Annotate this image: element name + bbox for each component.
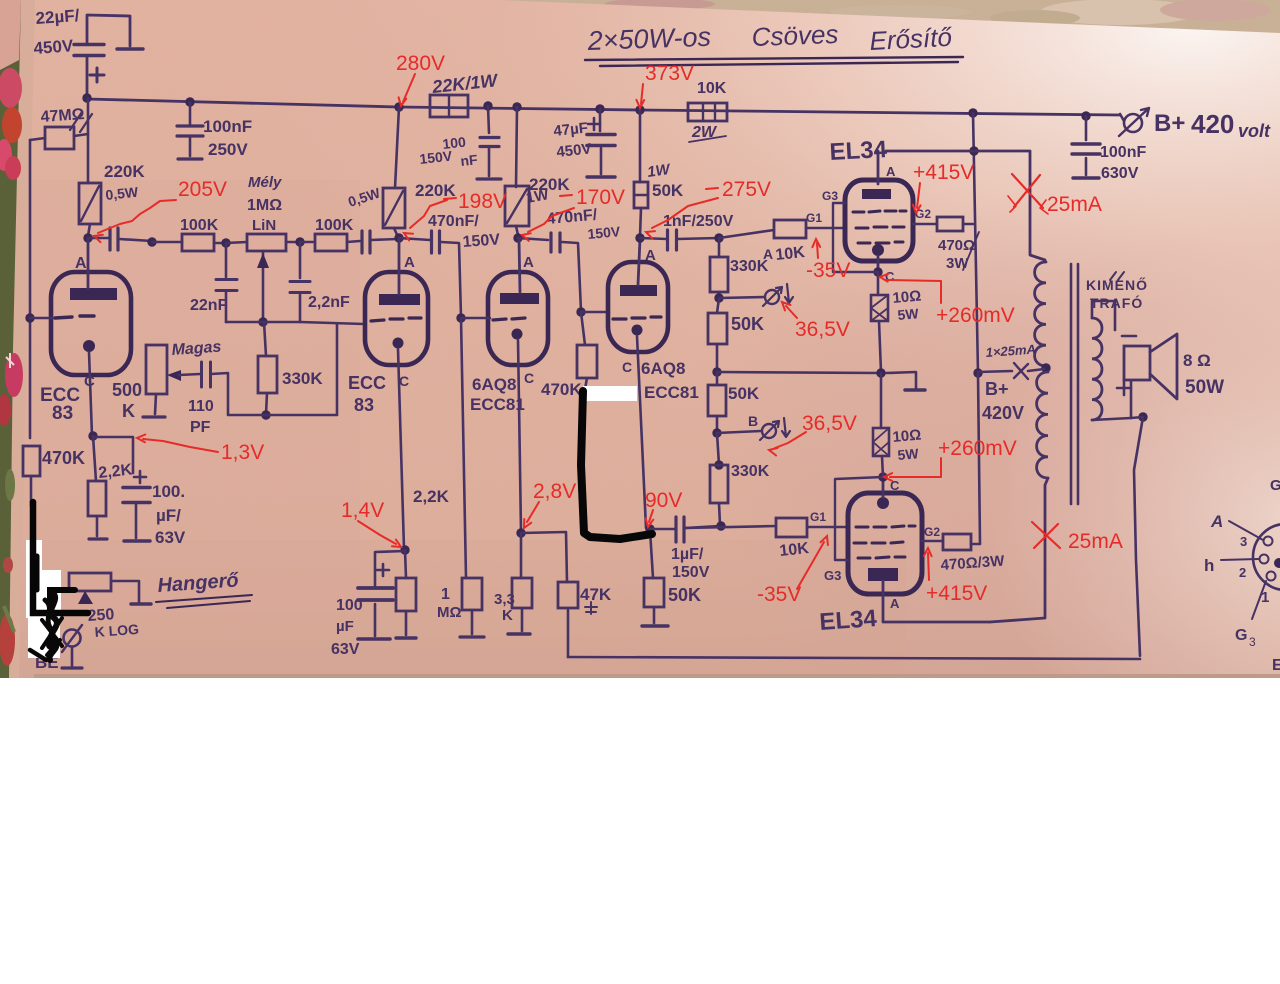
resistor 10ohm 5W EL34 2 <box>873 428 889 456</box>
inductor OPT secondary <box>1092 318 1102 420</box>
svg-text:+415V: +415V <box>926 582 987 605</box>
svg-text:B+: B+ <box>985 379 1009 399</box>
svg-text:A: A <box>645 247 656 264</box>
node 90V <box>645 524 654 533</box>
svg-text:A: A <box>890 596 900 611</box>
svg-text:1,3V: 1,3V <box>221 441 264 464</box>
resistor 10K grid EL34 1 <box>774 220 806 238</box>
svg-text:83: 83 <box>52 403 73 424</box>
subtle grain <box>0 0 1 1</box>
wire 2.2nF top <box>299 242 302 278</box>
arrow -35V lower <box>797 542 824 589</box>
wire pin h <box>1221 559 1258 560</box>
wire pin G3 <box>1252 581 1266 619</box>
capacitor 110pF <box>200 362 203 387</box>
ground 100nF 630V <box>1073 176 1099 179</box>
node <box>483 101 492 110</box>
wire to G1 EL34 2 <box>807 526 849 529</box>
potentiometer A trim <box>765 290 779 304</box>
wire cathode tube1 <box>89 352 92 436</box>
red X lower <box>1032 522 1060 548</box>
wire <box>347 241 360 242</box>
speaker 8ohm 50W <box>1122 335 1136 338</box>
svg-text:KIMENŐ: KIMENŐ <box>1086 276 1148 293</box>
resistor 47K <box>558 582 578 608</box>
svg-text:100nF: 100nF <box>203 117 252 136</box>
polarity + 47uF <box>588 118 600 130</box>
node tone network <box>258 317 267 326</box>
cathode tube4 <box>632 325 643 336</box>
resistor 50K upper <box>708 313 727 344</box>
wire <box>300 241 315 244</box>
wire <box>264 322 266 356</box>
capacitor coupling tube1 <box>108 228 111 250</box>
resistor 220K 0.5W anode tube1 <box>87 98 90 183</box>
capacitor 100nF/250V <box>185 97 194 106</box>
node cathode EL34 1 <box>873 267 882 276</box>
svg-text:Mély: Mély <box>248 174 282 191</box>
svg-text:330K: 330K <box>731 463 770 480</box>
wire anode tube3 <box>519 240 520 292</box>
wire screen supply <box>973 113 978 373</box>
polarity + 22uF <box>90 68 104 82</box>
wire <box>716 372 719 385</box>
resistor 470K tube4 <box>577 345 597 378</box>
arrow +260mV lower <box>890 458 941 477</box>
ground 100uF 2 <box>358 637 390 641</box>
svg-text:Csöves: Csöves <box>751 19 839 52</box>
grid dashes tube2 <box>371 318 421 321</box>
wire anode EL34 2 <box>883 594 990 622</box>
transformer core lines <box>1070 264 1073 504</box>
svg-text:2: 2 <box>1239 565 1246 580</box>
paper <box>16 0 1280 678</box>
svg-text:150V: 150V <box>587 223 622 242</box>
white correction patch bottom left <box>26 540 42 576</box>
node ladder top <box>714 233 723 242</box>
wire to ground <box>886 372 916 388</box>
resistor 3.3K <box>512 578 532 608</box>
wire input grid rail <box>29 140 32 438</box>
wire <box>719 503 720 525</box>
wire 2.8V to 47K <box>521 532 567 582</box>
resistor 22K/1W on rail <box>430 95 468 117</box>
svg-text:TRAFÓ: TRAFÓ <box>1090 294 1143 311</box>
wire 1M grid leak <box>461 318 466 578</box>
slightly darker left-mid paper tint <box>30 180 360 640</box>
wire 47K to feedback rail <box>567 608 570 657</box>
capacitor 100uF/63V 2 <box>358 586 393 590</box>
svg-text:50W: 50W <box>1185 377 1224 398</box>
svg-text:C: C <box>524 370 534 386</box>
resistor 50K lower <box>708 385 726 416</box>
svg-text:47MΩ: 47MΩ <box>40 106 85 126</box>
node grid tube4 <box>576 307 585 316</box>
wire cathode tube2 <box>398 349 404 549</box>
wire grid tube3 <box>461 317 490 320</box>
svg-text:1µF/: 1µF/ <box>671 546 704 563</box>
arrow 373V <box>641 84 643 104</box>
wire anode tube1 <box>87 238 90 288</box>
svg-text:25mA: 25mA <box>1068 530 1123 553</box>
svg-text:nF: nF <box>460 151 479 169</box>
wire cathode tube3 <box>518 340 521 532</box>
node 198V plate tube2 <box>394 233 403 242</box>
svg-text:100K: 100K <box>315 217 354 234</box>
capacitor 100uF/63V <box>123 486 150 490</box>
svg-text:LiN: LiN <box>252 217 276 234</box>
wire <box>717 433 719 465</box>
paper bottom edge shadow <box>34 674 1280 678</box>
pentode EL34 #2 <box>848 493 922 594</box>
white correction patch middle <box>583 386 637 401</box>
wire anode tube2 <box>398 238 401 294</box>
resistor 220K anode tube3 <box>505 186 529 226</box>
svg-text:K: K <box>502 607 513 624</box>
svg-text:10Ω: 10Ω <box>892 427 922 446</box>
ground 2.2K 2 <box>396 636 416 639</box>
node rail left end <box>82 93 91 102</box>
node 373V <box>635 105 644 114</box>
svg-text:205V: 205V <box>178 178 227 201</box>
capacitor 22nF <box>216 278 237 281</box>
svg-text:3: 3 <box>1240 534 1247 549</box>
svg-text:A: A <box>1210 512 1223 531</box>
wiper arrow 500K <box>167 370 181 381</box>
svg-text:2,2K: 2,2K <box>413 487 450 506</box>
svg-text:36,5V: 36,5V <box>795 318 850 341</box>
floral fabric strip on left edge <box>0 0 35 678</box>
wire CT to B+ <box>978 371 1012 372</box>
wire rail to 220K tube2 <box>395 107 399 188</box>
svg-text:198V: 198V <box>458 190 507 213</box>
resistor 47M <box>45 127 74 149</box>
wire <box>152 241 182 244</box>
wire <box>716 344 719 371</box>
wire <box>677 238 719 239</box>
potentiometer B trim <box>762 424 776 438</box>
wire <box>226 242 247 243</box>
arrow 36,5V upper <box>786 306 797 318</box>
node 170V plate tube3 <box>513 233 522 242</box>
svg-text:373V: 373V <box>645 62 694 85</box>
arrow 2,8V <box>527 502 539 522</box>
black marker input wiring <box>33 502 88 613</box>
wiper arrow 1M pot <box>262 251 265 322</box>
wire <box>640 238 667 239</box>
svg-text:µF: µF <box>336 618 354 635</box>
wire G3 tie EL34 2 <box>835 477 883 560</box>
grid dashes EL34 1 <box>853 211 906 212</box>
svg-text:220K: 220K <box>104 162 145 181</box>
svg-text:90V: 90V <box>645 489 682 512</box>
svg-text:K LOG: K LOG <box>94 621 139 640</box>
ground 100nF mid <box>477 177 501 180</box>
wire <box>488 106 489 133</box>
black marker wire middle <box>581 391 652 539</box>
node cathode tube1 1.3V <box>88 431 97 440</box>
svg-text:2×50W-os: 2×50W-os <box>586 22 711 56</box>
arrow 198V <box>410 200 447 228</box>
wire 90V to 50K <box>650 530 653 578</box>
svg-text:250V: 250V <box>208 140 248 159</box>
svg-text:6AQ8: 6AQ8 <box>641 359 685 378</box>
wire to 10K EL34 1 <box>719 230 774 238</box>
svg-text:150V: 150V <box>462 231 501 251</box>
ground 500K <box>143 415 165 418</box>
svg-text:ECC81: ECC81 <box>644 383 699 402</box>
svg-text:100.: 100. <box>152 482 185 501</box>
arrow +415V lower <box>928 553 929 580</box>
svg-text:470K: 470K <box>541 380 582 399</box>
svg-text:330K: 330K <box>282 369 323 388</box>
svg-text:170V: 170V <box>576 186 625 209</box>
arrow +260mV upper <box>886 280 941 303</box>
node pot B <box>712 428 721 437</box>
resistor 50K 90V <box>644 578 664 607</box>
cathode EL34 1 <box>872 244 884 256</box>
arrow +415V upper <box>917 183 920 208</box>
cathode tube2 <box>393 338 404 349</box>
resistor 100K right <box>315 234 347 251</box>
svg-text:MΩ: MΩ <box>437 604 462 621</box>
node bias bus <box>712 367 721 376</box>
wire <box>685 526 719 528</box>
arrow 1,3V <box>143 439 218 452</box>
wire <box>119 239 152 241</box>
wire OPT bottom to anode EL34 2 <box>990 478 1048 622</box>
dash 170V <box>560 195 572 196</box>
wire rail to 220K tube3 <box>516 107 517 187</box>
svg-text:ECC81: ECC81 <box>470 395 525 414</box>
wire <box>518 238 548 240</box>
wire cap to rail <box>86 56 89 98</box>
polarity + speaker <box>1117 381 1131 395</box>
svg-text:C: C <box>399 373 409 389</box>
wire anode EL34 1 <box>877 151 880 184</box>
wire <box>88 237 109 240</box>
svg-text:EL34: EL34 <box>829 136 888 166</box>
svg-text:+260mV: +260mV <box>936 304 1015 327</box>
svg-text:50K: 50K <box>731 314 764 334</box>
node <box>147 237 156 246</box>
wire to speaker + <box>1130 381 1133 418</box>
wire rail to 50K <box>639 110 642 182</box>
cathode tube1 <box>83 340 95 352</box>
dash 198V <box>444 198 456 199</box>
svg-text:G1: G1 <box>806 211 822 225</box>
wire anode EL34 1 to OPT top <box>886 151 1045 260</box>
wire to grid tube3 <box>441 242 461 317</box>
svg-text:420V: 420V <box>982 403 1024 423</box>
wire <box>717 298 719 313</box>
node grid tube1 <box>25 313 34 322</box>
svg-text:6AQ8: 6AQ8 <box>472 375 516 394</box>
svg-text:volt: volt <box>1238 121 1271 141</box>
svg-text:+415V: +415V <box>913 161 974 184</box>
grid dashes EL34 2 <box>856 526 915 527</box>
node 1.4V cathode tube2 <box>400 545 409 554</box>
svg-text:A: A <box>404 254 415 271</box>
wire secondary top to speaker <box>1092 301 1115 330</box>
triode ECC83 #1 <box>51 272 131 375</box>
node cathode ground bus <box>876 368 885 377</box>
ground 50K <box>642 624 668 627</box>
svg-text:B: B <box>748 413 758 429</box>
node A 205V plate tube1 <box>83 233 92 242</box>
node lower bus <box>261 410 270 419</box>
grid dashes tube4 <box>613 317 661 319</box>
svg-text:2,2nF: 2,2nF <box>308 294 350 311</box>
triode ECC83 #2 <box>365 272 428 365</box>
wire tone bus to grid tube2 <box>226 322 364 324</box>
triode 6AQ8 #1 <box>488 272 548 365</box>
wire anode tube4 <box>638 239 640 285</box>
node anode line crossing <box>969 146 978 155</box>
node <box>595 104 604 113</box>
svg-text:630V: 630V <box>1101 165 1139 182</box>
wire feedback vertical <box>1134 417 1143 656</box>
wire to G1 EL34 1 <box>806 227 846 230</box>
potentiometer 250K log volume <box>69 573 111 591</box>
svg-text:A: A <box>75 255 87 272</box>
resistor 10K/2W on rail <box>688 103 727 121</box>
resistor 470K input <box>23 446 40 476</box>
wire <box>585 378 587 389</box>
wire <box>394 228 398 237</box>
svg-text:µF/: µF/ <box>156 506 181 525</box>
node 2.8V cathode tube3 <box>516 528 525 537</box>
wire 110pF to bus <box>211 373 228 414</box>
wire <box>718 292 721 298</box>
wire grid tube4 <box>581 311 609 314</box>
potentiometer 1M bass <box>247 234 286 251</box>
arrow -35V upper <box>817 243 818 258</box>
svg-text:1,4V: 1,4V <box>341 499 384 522</box>
wire <box>718 238 721 257</box>
svg-text:470K: 470K <box>42 448 85 468</box>
capacitor 22uF/450V <box>87 15 130 46</box>
svg-text:50K: 50K <box>728 384 760 403</box>
svg-text:G: G <box>1270 477 1280 494</box>
arrow 1,4V <box>358 521 396 544</box>
ground 47uF <box>587 175 615 178</box>
ground 22uF return bar <box>117 47 143 50</box>
svg-text:63V: 63V <box>331 641 360 658</box>
wire wiper to 110pF <box>179 374 200 375</box>
ground EL34 cathodes <box>905 388 925 391</box>
inductor OPT primary lower <box>1037 372 1048 478</box>
wallpaper strip above paper, top right <box>480 0 1280 36</box>
capacitor 470nF/150V a <box>430 231 433 253</box>
wire 470K to input <box>30 476 33 506</box>
svg-text:220K: 220K <box>415 181 456 200</box>
svg-text:h: h <box>1204 556 1214 575</box>
svg-text:G: G <box>1235 627 1247 644</box>
svg-text:100K: 100K <box>180 217 219 234</box>
svg-text:C: C <box>622 359 632 375</box>
svg-text:470Ω: 470Ω <box>938 237 975 254</box>
svg-text:63V: 63V <box>155 528 186 547</box>
wire <box>650 528 675 531</box>
arrow 170V <box>528 208 574 232</box>
svg-text:E: E <box>1272 657 1280 674</box>
resistor 2.2K cathode tube1 <box>88 481 106 516</box>
wire G3 tie EL34 1 <box>833 203 878 272</box>
wire to 100uF <box>93 437 133 473</box>
svg-text:10K: 10K <box>697 80 727 97</box>
resistor 10ohm 5W EL34 1 <box>871 295 888 321</box>
node grid bus EL34 2 <box>716 521 725 530</box>
svg-text:+260mV: +260mV <box>938 437 1017 460</box>
capacitor coupling to tube2 <box>360 231 363 253</box>
node 22nF <box>221 238 230 247</box>
resistor 100K left <box>182 234 214 251</box>
svg-text:100nF: 100nF <box>1100 144 1146 161</box>
wire cathode tube4 to 90V <box>637 336 646 528</box>
resistor 50K/1W <box>634 182 648 208</box>
svg-text:K: K <box>122 401 135 421</box>
svg-text:-35V: -35V <box>757 583 801 606</box>
svg-text:50K: 50K <box>668 585 701 605</box>
wire to pot B <box>717 431 761 433</box>
svg-text:50K: 50K <box>652 181 684 200</box>
svg-text:1: 1 <box>441 586 450 603</box>
resistor 470ohm/3W screen 1 <box>937 217 963 231</box>
ground 2.2K <box>89 537 107 540</box>
socket pinout diagram <box>1253 524 1280 590</box>
svg-text:G3: G3 <box>822 189 838 203</box>
wire pot right <box>111 581 139 602</box>
resistor 10K grid EL34 2 <box>776 518 807 537</box>
triode 6AQ8 #2 <box>608 262 668 352</box>
node grid tube3 <box>456 313 465 322</box>
inductor OPT primary upper <box>1035 262 1046 366</box>
svg-text:PF: PF <box>190 419 211 436</box>
ground 100uF <box>124 539 150 542</box>
ground 1M <box>460 635 484 638</box>
node 100nF 630V <box>1081 111 1090 120</box>
svg-text:1: 1 <box>1261 589 1269 606</box>
wire G2 EL34 2 <box>922 540 943 543</box>
svg-text:2,8V: 2,8V <box>533 480 576 503</box>
svg-text:280V: 280V <box>396 52 445 75</box>
ground 3.3K <box>508 632 530 635</box>
svg-text:B+: B+ <box>1154 110 1185 137</box>
wire <box>399 238 430 240</box>
node <box>714 460 723 469</box>
svg-text:1W: 1W <box>646 161 672 181</box>
node pot A <box>714 293 723 302</box>
node 2.2nF <box>295 237 304 246</box>
capacitor 1nF/250V <box>666 230 669 250</box>
polarity + 100uF 2 <box>377 564 389 576</box>
svg-text:47µF: 47µF <box>553 119 589 140</box>
grid dashes tube1 <box>55 316 94 318</box>
wire cathode EL34 1 <box>877 256 880 272</box>
svg-text:3: 3 <box>1249 635 1256 649</box>
svg-text:450V: 450V <box>33 36 75 58</box>
svg-text:83: 83 <box>354 395 374 415</box>
node feedback tap <box>1138 412 1147 421</box>
anode plate tube1 <box>70 288 117 300</box>
capacitor 100nF/630V <box>1072 142 1100 145</box>
photo area <box>0 0 1280 750</box>
potentiometer 500K treble <box>146 345 167 394</box>
arrow 205V <box>98 200 176 233</box>
capacitor 1uF/150V <box>674 517 677 542</box>
svg-text:10Ω: 10Ω <box>892 288 922 307</box>
